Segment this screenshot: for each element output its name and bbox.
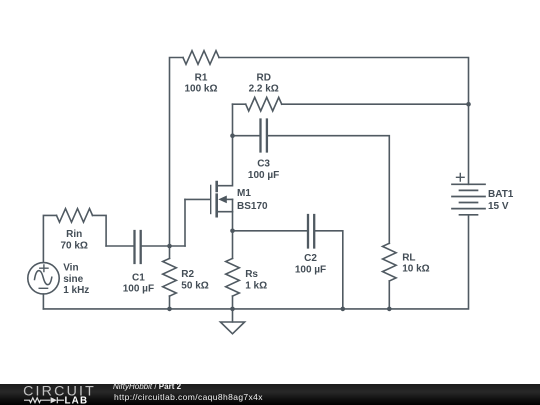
svg-text:2.2 kΩ: 2.2 kΩ [249, 84, 279, 95]
svg-text:BS170: BS170 [237, 201, 268, 212]
svg-text:M1: M1 [237, 188, 251, 199]
svg-text:RL: RL [402, 252, 415, 263]
svg-text:Vin: Vin [63, 263, 78, 274]
svg-text:Rs: Rs [245, 269, 258, 280]
svg-text:C3: C3 [257, 159, 270, 170]
svg-text:100 µF: 100 µF [295, 264, 326, 275]
svg-text:Rin: Rin [66, 229, 82, 240]
svg-text:C2: C2 [304, 253, 317, 264]
svg-text:LAB: LAB [65, 396, 89, 405]
svg-text:100 µF: 100 µF [248, 170, 279, 181]
svg-text:15 V: 15 V [488, 201, 509, 212]
svg-text:70 kΩ: 70 kΩ [60, 240, 87, 251]
svg-text:100 µF: 100 µF [123, 284, 154, 295]
svg-text:sine: sine [63, 274, 83, 285]
svg-text:1 kΩ: 1 kΩ [245, 281, 267, 292]
svg-text:R2: R2 [181, 269, 194, 280]
svg-text:C1: C1 [132, 272, 145, 283]
svg-text:10 kΩ: 10 kΩ [402, 264, 429, 275]
svg-text:50 kΩ: 50 kΩ [181, 281, 208, 292]
svg-text:BAT1: BAT1 [488, 189, 514, 200]
svg-text:100 kΩ: 100 kΩ [184, 84, 217, 95]
svg-text:1 kHz: 1 kHz [63, 285, 89, 296]
svg-text:RD: RD [256, 72, 270, 83]
svg-text:R1: R1 [195, 72, 208, 83]
